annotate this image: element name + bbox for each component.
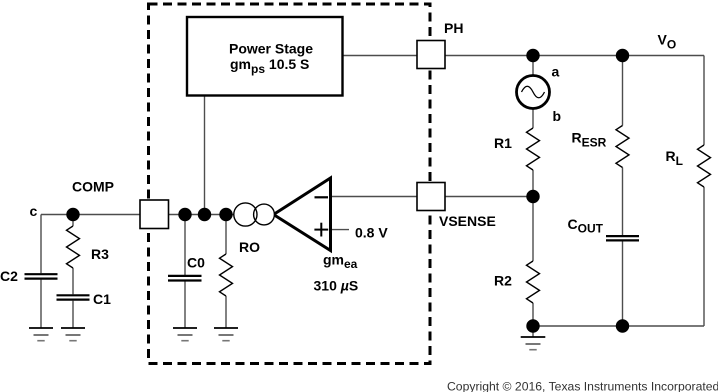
svg-text:c: c <box>30 203 38 219</box>
wire node a to AC source <box>532 56 534 77</box>
wire RO to ground <box>225 296 227 328</box>
svg-text:RL: RL <box>666 148 683 168</box>
op-amp gm_ea error amplifier <box>274 178 331 251</box>
wire RL branch lower <box>703 187 705 326</box>
Power Stage block U1 <box>187 17 343 96</box>
wire node c down to C2 <box>40 215 42 274</box>
transconductance output stage circles <box>234 203 275 226</box>
wire R1 to R2 <box>532 170 534 261</box>
resistor RL <box>698 145 711 187</box>
resistor RO <box>220 254 233 296</box>
wire C2 to ground <box>40 280 42 328</box>
svg-text:VO: VO <box>658 31 677 51</box>
svg-text:Power Stage: Power Stage <box>229 41 313 57</box>
node row junction dot 3 <box>219 208 232 221</box>
node row junction dot 2 <box>198 208 211 221</box>
wire node to C0 <box>184 215 186 276</box>
svg-text:a: a <box>552 64 560 80</box>
ground below RO <box>214 328 238 341</box>
ground below R2 <box>521 337 546 350</box>
wire RESR to COUT <box>622 168 624 236</box>
wire PH to output rail <box>445 55 704 57</box>
dashed device boundary <box>149 4 431 364</box>
node a junction dot <box>526 49 539 62</box>
wire RL branch upper <box>703 56 705 146</box>
ground below C2 <box>29 328 53 341</box>
svg-text:0.8 V: 0.8 V <box>355 225 388 241</box>
feedback node junction dot <box>526 190 539 203</box>
pin box PH <box>417 41 445 69</box>
ground below C1 <box>61 328 85 341</box>
svg-text:VSENSE: VSENSE <box>439 213 496 229</box>
svg-text:COMP: COMP <box>72 179 114 195</box>
wire error amp inverting input <box>331 196 418 198</box>
svg-text:310 µS: 310 µS <box>314 277 359 293</box>
wire internal node row <box>169 214 235 216</box>
wire Power Stage output down to internal node <box>204 96 206 215</box>
pin box VSENSE <box>417 183 445 211</box>
svg-text:C2: C2 <box>0 268 18 284</box>
capacitor C1 <box>57 295 90 299</box>
R2 bottom junction dot <box>526 319 539 332</box>
svg-text:R3: R3 <box>91 246 109 262</box>
wire C1 to ground <box>72 301 74 328</box>
svg-text:R2: R2 <box>494 272 512 288</box>
wire VSENSE to feedback node <box>445 196 533 198</box>
wire error amp non-inverting input to 0.8 V <box>331 229 350 231</box>
wire node to RO <box>225 215 227 255</box>
AC source V1 <box>517 76 550 109</box>
pin box COMP <box>140 200 169 229</box>
capacitor C0 <box>168 276 202 281</box>
wire COUT to bottom rail <box>622 242 624 327</box>
wire AC source to R1 <box>532 108 534 128</box>
svg-text:Copyright © 2016, Texas Instru: Copyright © 2016, Texas Instruments Inco… <box>447 380 718 392</box>
wire Power Stage to PH <box>343 55 417 57</box>
wire COMP to node c <box>41 214 140 216</box>
svg-text:RO: RO <box>239 239 260 255</box>
ground below C0 <box>173 328 197 341</box>
COMP node junction dot <box>66 208 79 221</box>
svg-text:COUT: COUT <box>568 216 604 236</box>
RESR top junction dot <box>616 49 629 62</box>
resistor R3 <box>67 226 80 268</box>
svg-text:R1: R1 <box>494 135 512 151</box>
wire bottom rail <box>533 325 704 327</box>
svg-text:PH: PH <box>444 20 463 36</box>
resistor R1 <box>527 128 540 170</box>
resistor RESR <box>616 126 629 168</box>
wire RESR branch upper <box>622 56 624 126</box>
svg-text:b: b <box>553 108 562 124</box>
wire R3 to C1 <box>72 268 74 294</box>
svg-text:C0: C0 <box>187 254 205 270</box>
resistor R2 <box>527 261 540 303</box>
svg-text:gmea: gmea <box>323 251 358 271</box>
svg-text:C1: C1 <box>93 291 111 307</box>
wire C0 to ground <box>184 281 186 328</box>
node row junction dot 1 <box>178 208 191 221</box>
capacitor COUT <box>606 236 639 240</box>
svg-text:RESR: RESR <box>572 129 607 149</box>
COUT bottom junction dot <box>616 319 629 332</box>
capacitor C2 <box>25 274 58 278</box>
wire R2 to ground <box>532 303 534 337</box>
wire COMP node to R3 <box>72 215 74 227</box>
